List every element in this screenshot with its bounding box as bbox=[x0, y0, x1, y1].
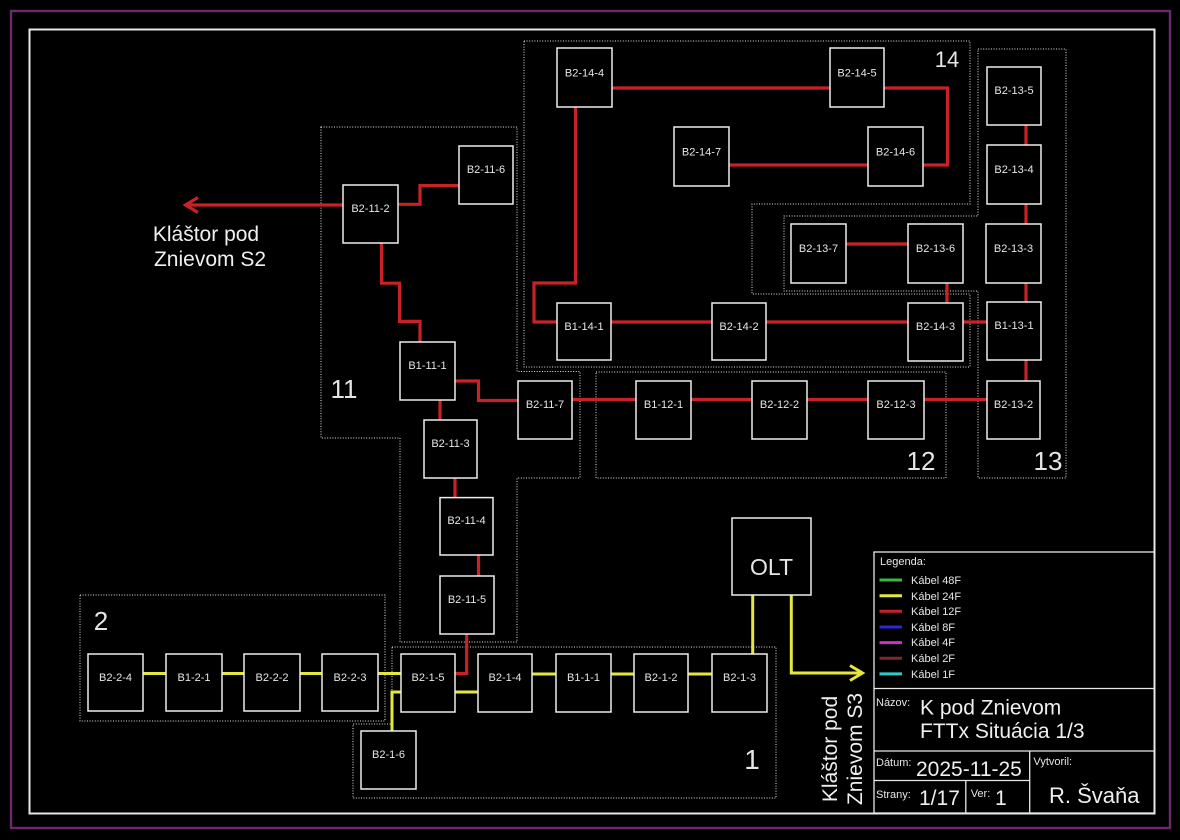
title block outer border bbox=[874, 552, 1155, 813]
ver divider bbox=[965, 781, 967, 814]
wire B2-13-6 to B2-14-3 bbox=[945, 283, 948, 303]
svg-text:B2-11-3: B2-11-3 bbox=[431, 438, 469, 450]
svg-text:2025-11-25: 2025-11-25 bbox=[916, 758, 1022, 781]
svg-text:B2-13-6: B2-13-6 bbox=[916, 243, 955, 255]
box B2-14-7 bbox=[674, 127, 729, 186]
svg-text:Znievom S2: Znievom S2 bbox=[154, 248, 266, 271]
label Klastor pod Znievom S3 (rotated) bbox=[819, 693, 867, 805]
box B2-13-3 bbox=[986, 224, 1041, 283]
svg-text:B2-11-6: B2-11-6 bbox=[467, 164, 505, 176]
box B2-14-2 bbox=[712, 303, 766, 360]
svg-text:B1-14-1: B1-14-1 bbox=[564, 321, 603, 333]
svg-text:Kláštor pod: Kláštor pod bbox=[819, 696, 842, 802]
svg-text:B2-1-2: B2-1-2 bbox=[644, 672, 677, 684]
svg-text:B2-14-2: B2-14-2 bbox=[719, 321, 758, 333]
box B2-14-5 bbox=[830, 48, 884, 107]
svg-text:Znievom S3: Znievom S3 bbox=[844, 693, 867, 805]
wire B2-13-3 to B1-13-1 bbox=[1024, 283, 1027, 302]
group 12 outline bbox=[596, 372, 946, 478]
box B2-11-3 bbox=[424, 420, 477, 478]
svg-text:R. Švaňa: R. Švaňa bbox=[1049, 783, 1140, 808]
label Klastor pod Znievom S2 bbox=[153, 223, 266, 271]
box B1-14-1 bbox=[557, 303, 611, 360]
svg-text:B2-1-5: B2-1-5 bbox=[411, 672, 444, 684]
wire B2-12-2 to B2-12-3 bbox=[807, 398, 868, 401]
box B2-13-4 bbox=[987, 145, 1041, 204]
box B1-11-1 bbox=[400, 342, 455, 400]
wire B2-14-5 to B2-14-6 bbox=[884, 88, 948, 165]
svg-text:B2-1-4: B2-1-4 bbox=[488, 672, 521, 684]
svg-text:14: 14 bbox=[935, 47, 959, 72]
svg-text:B1-12-1: B1-12-1 bbox=[644, 399, 683, 411]
box B2-2-4 bbox=[88, 654, 143, 711]
svg-text:B2-12-2: B2-12-2 bbox=[760, 399, 799, 411]
wire B2-11-7 to B1-12-1 bbox=[572, 398, 636, 401]
box B2-12-2 bbox=[752, 381, 807, 439]
svg-text:B2-11-7: B2-11-7 bbox=[526, 399, 564, 411]
legend and title block bbox=[874, 552, 1155, 813]
wire B2-1-5 to B2-1-4 bbox=[455, 691, 478, 694]
legend swatch 4F bbox=[880, 641, 903, 644]
wire B2-1-4 to B1-1-1 bbox=[532, 673, 556, 676]
wire B2-1-5 to B2-1-6 bbox=[392, 692, 401, 731]
wire B2-14-3 to B1-13-1 bbox=[963, 320, 987, 323]
svg-text:1/17: 1/17 bbox=[919, 787, 960, 810]
arrowhead S2 bbox=[186, 198, 199, 213]
legend divider bbox=[874, 688, 1155, 690]
wire OLT to S3 arrow bbox=[791, 595, 862, 673]
box B2-13-6 bbox=[908, 224, 963, 283]
box B2-2-2 bbox=[244, 654, 300, 711]
wire B2-14-4 to B1-14-1 bbox=[534, 107, 576, 322]
svg-text:Kláštor pod: Kláštor pod bbox=[153, 223, 259, 246]
box B2-1-2 bbox=[634, 654, 688, 712]
box OLT bbox=[732, 518, 811, 595]
svg-text:Dátum:: Dátum: bbox=[876, 757, 911, 769]
wire B2-1-2 to B2-1-3 bbox=[688, 673, 712, 676]
svg-text:Strany:: Strany: bbox=[876, 789, 911, 801]
wire B2-1-3 to OLT bbox=[751, 595, 754, 654]
arrowhead S3 bbox=[850, 666, 863, 681]
svg-text:B2-13-4: B2-13-4 bbox=[994, 164, 1033, 176]
svg-text:Ver:: Ver: bbox=[971, 788, 991, 800]
svg-text:B2-12-3: B2-12-3 bbox=[876, 399, 915, 411]
wire B2-14-7 to B2-14-6 bbox=[729, 163, 868, 166]
box B2-11-4 bbox=[440, 498, 493, 555]
box B2-1-3 bbox=[712, 654, 767, 712]
svg-text:B2-14-6: B2-14-6 bbox=[876, 147, 915, 159]
legend swatch 48F bbox=[880, 579, 903, 582]
svg-text:11: 11 bbox=[331, 374, 358, 404]
svg-text:Kábel 8F: Kábel 8F bbox=[911, 622, 955, 634]
svg-text:Kábel 2F: Kábel 2F bbox=[911, 653, 955, 665]
svg-text:B1-1-1: B1-1-1 bbox=[567, 672, 600, 684]
svg-text:Vytvoril:: Vytvoril: bbox=[1033, 756, 1072, 768]
svg-text:K pod Znievom: K pod Znievom bbox=[920, 697, 1061, 720]
wire B1-11-1 to B2-11-7 bbox=[455, 381, 518, 401]
wire B2-12-3 to B2-13-2 bbox=[924, 398, 987, 401]
svg-text:B2-11-4: B2-11-4 bbox=[447, 515, 485, 527]
box B1-2-1 bbox=[166, 654, 222, 711]
box B2-11-5 bbox=[440, 576, 494, 634]
wire B2-14-4 to B2-14-5 bbox=[612, 86, 830, 89]
legend swatch 8F bbox=[880, 626, 903, 629]
svg-text:Kábel 48F: Kábel 48F bbox=[911, 575, 961, 587]
svg-text:B2-11-2: B2-11-2 bbox=[351, 203, 389, 215]
svg-text:B2-13-2: B2-13-2 bbox=[994, 399, 1033, 411]
box B2-13-5 bbox=[987, 67, 1041, 125]
vytvoril divider bbox=[1029, 751, 1031, 813]
wire B1-1-1 to B2-1-2 bbox=[611, 673, 634, 676]
box B2-11-2 bbox=[343, 185, 398, 243]
box B2-1-6 bbox=[361, 731, 416, 789]
box B2-13-2 bbox=[987, 381, 1040, 439]
group 2 outline bbox=[80, 595, 385, 721]
legend swatch 1F bbox=[880, 672, 903, 675]
svg-text:Kábel 4F: Kábel 4F bbox=[911, 637, 955, 649]
wire B2-2-3 to B2-1-5 bbox=[378, 672, 401, 675]
box B2-11-7 bbox=[518, 381, 572, 439]
svg-text:B2-14-4: B2-14-4 bbox=[565, 68, 604, 80]
svg-text:B2-13-7: B2-13-7 bbox=[799, 243, 838, 255]
legend swatch 2F bbox=[880, 657, 903, 660]
svg-text:B2-2-4: B2-2-4 bbox=[99, 672, 132, 684]
svg-text:1: 1 bbox=[744, 744, 760, 775]
wire B2-13-5 to B2-13-4 bbox=[1024, 125, 1027, 145]
legend swatch 12F bbox=[880, 610, 903, 613]
wire B2-2-2 to B2-2-3 bbox=[300, 672, 322, 675]
wire B2-11-4 to B2-11-5 bbox=[477, 555, 480, 576]
legend swatch 24F bbox=[880, 594, 903, 597]
group 1 outline bbox=[353, 647, 776, 798]
svg-text:2: 2 bbox=[94, 606, 108, 636]
group 11 outline bbox=[321, 127, 580, 642]
svg-text:Názov:: Názov: bbox=[876, 697, 910, 709]
svg-text:B2-2-2: B2-2-2 bbox=[255, 672, 288, 684]
svg-text:B1-11-1: B1-11-1 bbox=[408, 360, 446, 372]
svg-text:12: 12 bbox=[907, 446, 936, 476]
svg-text:FTTx Situácia 1/3: FTTx Situácia 1/3 bbox=[920, 720, 1085, 743]
svg-text:B2-1-6: B2-1-6 bbox=[372, 749, 405, 761]
group 13 outline bbox=[784, 49, 1066, 478]
wire B2-11-5 to B2-1-5 bbox=[455, 634, 467, 674]
box B2-14-6 bbox=[868, 127, 923, 186]
svg-text:13: 13 bbox=[1034, 446, 1063, 476]
box B2-13-7 bbox=[791, 224, 846, 283]
wire B2-11-2 to S2 arrow bbox=[186, 203, 343, 206]
wire B2-13-4 to B2-13-3 bbox=[1024, 204, 1027, 224]
svg-text:B2-14-3: B2-14-3 bbox=[916, 321, 955, 333]
svg-text:B2-1-3: B2-1-3 bbox=[723, 672, 756, 684]
svg-text:B2-2-3: B2-2-3 bbox=[333, 672, 366, 684]
box B2-1-4 bbox=[478, 654, 532, 712]
box B2-1-5 bbox=[401, 654, 455, 712]
svg-text:Legenda:: Legenda: bbox=[880, 556, 926, 568]
svg-text:Kábel 12F: Kábel 12F bbox=[911, 606, 961, 618]
svg-text:OLT: OLT bbox=[750, 554, 793, 580]
box B2-11-6 bbox=[459, 146, 513, 204]
svg-text:B2-13-5: B2-13-5 bbox=[994, 85, 1033, 97]
svg-text:B1-2-1: B1-2-1 bbox=[177, 672, 210, 684]
svg-text:1: 1 bbox=[995, 787, 1007, 810]
wire B1-12-1 to B2-12-2 bbox=[691, 398, 752, 401]
svg-text:B2-14-5: B2-14-5 bbox=[837, 68, 876, 80]
wire B2-11-2 to B1-11-1 bbox=[382, 243, 421, 342]
wire B2-2-4 to B1-2-1 bbox=[143, 672, 166, 675]
box B2-14-3 bbox=[908, 303, 963, 361]
svg-text:B2-14-7: B2-14-7 bbox=[682, 147, 721, 159]
box B1-12-1 bbox=[636, 381, 691, 439]
box B1-13-1 bbox=[987, 302, 1041, 360]
wire B1-14-1 to B2-14-2 bbox=[611, 320, 712, 323]
svg-text:B1-13-1: B1-13-1 bbox=[994, 320, 1033, 332]
wire B1-13-1 to B2-13-2 bbox=[1024, 360, 1027, 381]
wire B1-11-1 to B2-11-3 bbox=[438, 400, 441, 420]
wire B2-11-3 to B2-11-4 bbox=[453, 478, 456, 498]
box B1-1-1 bbox=[556, 654, 611, 712]
group 14 outline bbox=[524, 41, 970, 367]
wire B2-13-7 to B2-13-6 bbox=[846, 242, 908, 245]
nazov divider bbox=[874, 750, 1155, 752]
svg-text:B2-13-3: B2-13-3 bbox=[994, 243, 1033, 255]
box B2-2-3 bbox=[322, 654, 378, 711]
box B2-12-3 bbox=[868, 381, 924, 439]
wire B2-14-2 to B2-14-3 bbox=[766, 320, 908, 323]
strany divider bbox=[874, 780, 1030, 782]
svg-text:B2-11-5: B2-11-5 bbox=[448, 594, 486, 606]
box B2-14-4 bbox=[557, 48, 612, 107]
svg-text:Kábel 1F: Kábel 1F bbox=[911, 669, 955, 681]
wire B1-2-1 to B2-2-2 bbox=[222, 672, 244, 675]
svg-text:Kábel 24F: Kábel 24F bbox=[911, 591, 961, 603]
wire B2-11-2 to B2-11-6 bbox=[398, 186, 459, 205]
